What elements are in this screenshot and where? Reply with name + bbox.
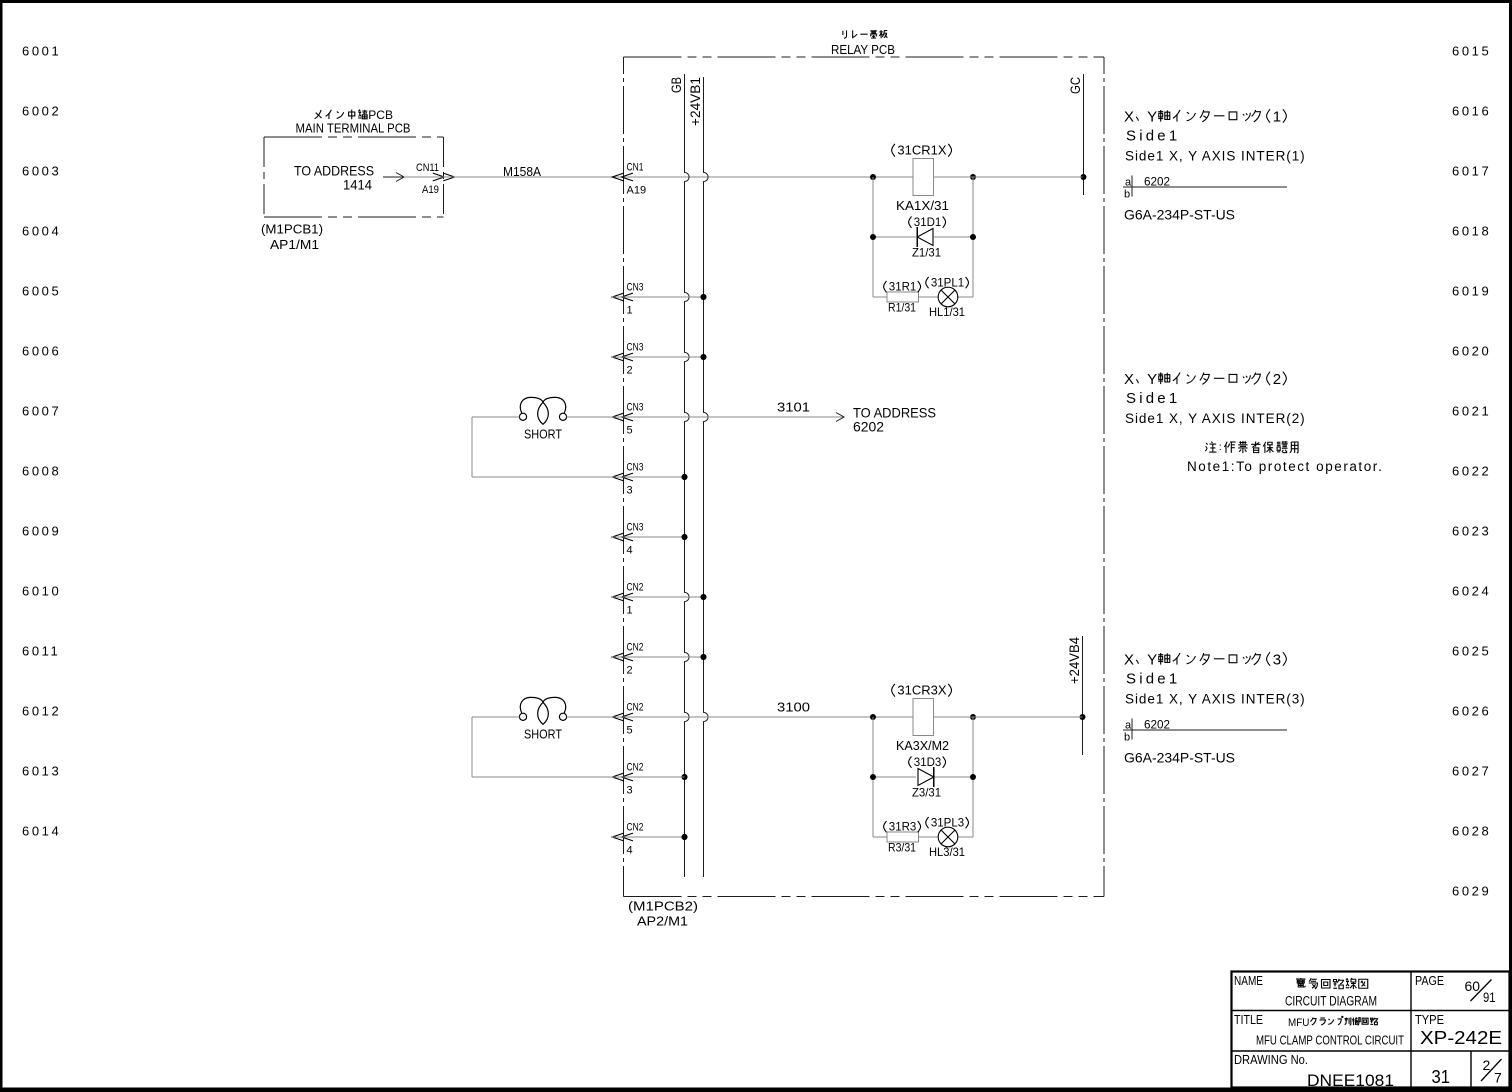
svg-text:KA3X/M2: KA3X/M2 (896, 738, 949, 753)
connector CN2 pin 1 (edge chevrons) (612, 593, 624, 601)
svg-text:PAGE: PAGE (1415, 973, 1444, 988)
svg-text:6012: 6012 (22, 704, 61, 719)
svg-text:31D3: 31D3 (914, 757, 942, 769)
svg-text:CN2: CN2 (627, 642, 644, 654)
svg-text:6011: 6011 (22, 644, 60, 659)
label （31PL3） (926, 817, 929, 828)
svg-text:NAME: NAME (1234, 973, 1263, 988)
wire jumper1 to CN3-3 (472, 476, 612, 478)
svg-text:X: X (1124, 109, 1134, 126)
node diode row right junction (970, 774, 976, 780)
svg-text:6004: 6004 (22, 224, 61, 239)
svg-text:TITLE: TITLE (1234, 1012, 1263, 1027)
svg-text:MFU: MFU (1288, 1017, 1309, 1029)
label （31CR1X） (892, 144, 895, 157)
wire M158A from CN11 to relay coil (404, 176, 913, 178)
svg-text:6014: 6014 (22, 824, 61, 839)
node GC junction at row 6003 (1081, 174, 1087, 180)
wire diode row right (934, 236, 973, 238)
svg-text:A19: A19 (422, 184, 439, 196)
svg-text:6005: 6005 (22, 284, 61, 299)
node diode row left junction (870, 234, 876, 240)
svg-text:31: 31 (1432, 1067, 1451, 1087)
svg-text:G6A-234P-ST-US: G6A-234P-ST-US (1124, 207, 1235, 223)
svg-text:KA1X/31: KA1X/31 (896, 198, 949, 213)
svg-text:CIRCUIT DIAGRAM: CIRCUIT DIAGRAM (1285, 994, 1377, 1009)
wire diode row left (873, 776, 916, 778)
node diode row left junction (870, 774, 876, 780)
svg-text:3: 3 (1273, 652, 1281, 669)
svg-text:6017: 6017 (1452, 164, 1491, 179)
bus line +24VB1 (vertical) with crossover hops (704, 77, 709, 877)
svg-text:HL1/31: HL1/31 (929, 305, 965, 319)
svg-text:CN3: CN3 (627, 402, 644, 414)
svg-text:1: 1 (627, 305, 633, 317)
wire left branch vertical (872, 717, 874, 837)
wire CN2-2 to +24VB1 (612, 656, 704, 658)
svg-text:6003: 6003 (22, 164, 61, 179)
svg-text:Y: Y (1147, 652, 1157, 669)
svg-text:91: 91 (1483, 989, 1496, 1005)
svg-text:X: X (1124, 371, 1134, 388)
svg-text:5: 5 (627, 425, 633, 437)
node left branch junction at (873,177) (870, 174, 876, 180)
label リレー基板 / RELAY PCB (843, 30, 847, 38)
svg-text:6016: 6016 (1452, 104, 1491, 119)
label メイン中継PCB / MAIN TERMINAL PCB (315, 110, 322, 119)
svg-text:60: 60 (1465, 978, 1481, 994)
svg-text:RELAY PCB: RELAY PCB (831, 42, 895, 57)
svg-text:6009: 6009 (22, 524, 61, 539)
wire CN2-3 to GB (684, 776, 686, 778)
svg-text:6020: 6020 (1452, 344, 1491, 359)
wire left branch vertical (872, 177, 874, 297)
label （31PL1） (926, 277, 929, 288)
wire CN2-4 to GB (612, 836, 685, 838)
svg-text:6026: 6026 (1452, 704, 1491, 719)
svg-text:MAIN TERMINAL PCB: MAIN TERMINAL PCB (296, 121, 411, 136)
svg-text:G6A-234P-ST-US: G6A-234P-ST-US (1124, 750, 1235, 766)
wire right branch vertical (972, 177, 974, 297)
svg-text:DNEE1081: DNEE1081 (1307, 1071, 1394, 1090)
svg-text:6007: 6007 (22, 404, 61, 419)
relay coil KA1X/31 box (913, 159, 934, 196)
svg-text:+24VB4: +24VB4 (1066, 637, 1082, 684)
svg-text:3101: 3101 (777, 400, 810, 415)
svg-text:CN3: CN3 (627, 282, 644, 294)
svg-text:31D1: 31D1 (914, 217, 942, 229)
svg-text:(M1PCB1): (M1PCB1) (261, 222, 323, 237)
svg-text:2: 2 (1483, 1057, 1491, 1073)
svg-text:Y: Y (1147, 109, 1157, 126)
connector CN3 pin 1 (edge chevrons) (612, 293, 624, 301)
svg-text:GB: GB (668, 77, 684, 93)
svg-text:31PL3: 31PL3 (931, 818, 964, 830)
label （31R3） (884, 821, 887, 832)
svg-text:5: 5 (627, 725, 633, 737)
svg-text:+24VB1: +24VB1 (687, 77, 703, 126)
node right branch junction at (973,717) (970, 714, 976, 720)
svg-text:M158A: M158A (503, 164, 541, 179)
wire CN3-1 to +24VB1 (612, 296, 704, 298)
jumper plug SHORT (CN2-5 to CN2-3) (519, 697, 566, 724)
connector CN2 pin 4 (edge chevrons) (612, 833, 624, 841)
node right branch junction at (973,177) (970, 174, 976, 180)
svg-text:Z1/31: Z1/31 (912, 246, 941, 260)
bus line GC (vertical) (1083, 74, 1085, 195)
grid reference numbers right column 6015-6029 (1452, 44, 1491, 899)
svg-text:3: 3 (627, 485, 633, 497)
arrow to address 6202 (836, 413, 844, 422)
svg-text:6018: 6018 (1452, 224, 1491, 239)
node +24VB4 junction at row 6012 (1080, 714, 1086, 720)
node left branch junction at (873,717) (870, 714, 876, 720)
bus line +24VB4 (vertical) (1082, 636, 1084, 755)
svg-text:A19: A19 (627, 185, 647, 197)
wire diode row right (934, 776, 973, 778)
svg-text:CN2: CN2 (627, 762, 644, 774)
svg-text:Side1: Side1 (1126, 390, 1180, 407)
wire CN3-2 to +24VB1 (612, 356, 704, 358)
svg-text:CN3: CN3 (627, 462, 644, 474)
svg-text:DRAWING No.: DRAWING No. (1234, 1052, 1308, 1067)
svg-text:1414: 1414 (343, 177, 372, 193)
connector CN3 pin 5 (edge chevrons) (612, 413, 624, 421)
svg-text:XP-242E: XP-242E (1420, 1028, 1502, 1048)
svg-text:6024: 6024 (1452, 584, 1491, 599)
svg-text:b: b (1124, 732, 1130, 744)
svg-text:2: 2 (627, 365, 633, 377)
wire jumper1 left leg (472, 416, 519, 418)
wire right of coil to bus (934, 176, 1083, 178)
svg-text:3100: 3100 (777, 700, 810, 715)
connector CN1 pin A19 (edge chevrons) (612, 173, 624, 181)
svg-text:SHORT: SHORT (524, 427, 562, 442)
svg-text:6025: 6025 (1452, 644, 1491, 659)
svg-text:6202: 6202 (1144, 175, 1170, 189)
svg-text:SHORT: SHORT (524, 727, 562, 742)
svg-text:b: b (1124, 189, 1130, 201)
svg-text:31R3: 31R3 (889, 822, 917, 834)
label （31D3） (909, 757, 912, 768)
svg-text:Side1: Side1 (1126, 671, 1180, 688)
svg-text:6021: 6021 (1452, 404, 1491, 419)
svg-text:6028: 6028 (1452, 824, 1491, 839)
connector CN3 pin 2 (edge chevrons) (612, 353, 624, 361)
svg-text:6010: 6010 (22, 584, 61, 599)
svg-text:3: 3 (627, 785, 633, 797)
svg-text:Side1: Side1 (1126, 128, 1180, 145)
label （31D1） (909, 217, 912, 228)
svg-text:Z3/31: Z3/31 (912, 786, 941, 800)
annotation note 注：作業者保護用 (1205, 442, 1216, 452)
wire CN2-1 to +24VB1 (612, 596, 704, 598)
grid reference numbers left column 6001-6014 (22, 44, 61, 839)
svg-text:4: 4 (627, 545, 633, 557)
svg-text:7: 7 (1494, 1070, 1502, 1086)
svg-text:TYPE: TYPE (1415, 1012, 1444, 1027)
wire diode row left (873, 236, 916, 238)
connector CN3 pin 3 (edge chevrons) (612, 473, 624, 481)
svg-text:GC: GC (1067, 77, 1083, 94)
svg-text:X: X (1124, 652, 1134, 669)
svg-text:2: 2 (1273, 371, 1281, 388)
svg-text:R3/31: R3/31 (888, 841, 916, 855)
svg-text:1: 1 (1273, 109, 1281, 126)
svg-text:6002: 6002 (22, 104, 61, 119)
wire jumper2 to CN2-3 (472, 776, 685, 778)
lamp HL3/31 (938, 827, 958, 847)
svg-text:6015: 6015 (1452, 44, 1491, 59)
bus line GB (vertical) with crossover hops (685, 74, 690, 877)
label （31CR3X） (892, 684, 895, 697)
wire jumper1 right leg to CN3-5 (567, 416, 612, 418)
svg-text:31R1: 31R1 (889, 282, 917, 294)
wire jumper2 right leg to CN2-5 (567, 716, 612, 718)
svg-text:AP2/M1: AP2/M1 (637, 914, 688, 929)
svg-text:Note1:To protect operator.: Note1:To protect operator. (1187, 459, 1383, 474)
diode Z1/31 (917, 229, 933, 246)
wire CN3-4 to GB (612, 536, 685, 538)
svg-text:(M1PCB2): (M1PCB2) (628, 899, 698, 914)
svg-text:6001: 6001 (22, 44, 61, 59)
connector CN2 pin 5 (edge chevrons) (612, 713, 624, 721)
svg-text:MFU CLAMP CONTROL CIRCUIT: MFU CLAMP CONTROL CIRCUIT (1256, 1033, 1404, 1048)
svg-text:R1/31: R1/31 (888, 301, 916, 315)
svg-text:CN1: CN1 (627, 162, 644, 174)
resistor R3/31 (887, 832, 919, 842)
svg-text:Side1 X, Y AXIS INTER(2): Side1 X, Y AXIS INTER(2) (1125, 411, 1306, 426)
connector CN2 pin 2 (edge chevrons) (612, 653, 624, 661)
svg-text:HL3/31: HL3/31 (929, 845, 965, 859)
svg-text:CN3: CN3 (627, 522, 644, 534)
svg-text:6023: 6023 (1452, 524, 1491, 539)
wire 3100 from CN2-5 to relay coil KA3X (612, 716, 913, 718)
svg-text:6019: 6019 (1452, 284, 1491, 299)
svg-text:6022: 6022 (1452, 464, 1491, 479)
connector CN3 pin 4 (edge chevrons) (612, 533, 624, 541)
svg-text:CN2: CN2 (627, 582, 644, 594)
svg-text:Side1 X, Y AXIS INTER(3): Side1 X, Y AXIS INTER(3) (1125, 692, 1306, 707)
wire 3101 from CN3-5 to address 6202 (612, 416, 843, 418)
svg-text:6013: 6013 (22, 764, 61, 779)
svg-text:4: 4 (627, 845, 633, 857)
svg-text:CN3: CN3 (627, 342, 644, 354)
main terminal pcb AP1/M1 dashed box (264, 136, 444, 138)
wire resistor row (873, 836, 887, 838)
svg-text:2: 2 (627, 665, 633, 677)
wire right branch vertical (972, 717, 974, 837)
node diode row right junction (970, 234, 976, 240)
svg-text:CN2: CN2 (627, 702, 644, 714)
signal arrow to address 1414 (383, 176, 403, 178)
svg-text:6202: 6202 (853, 419, 884, 435)
diode Z3/31 (918, 769, 934, 786)
svg-text:CN11: CN11 (416, 162, 439, 174)
svg-text:Y: Y (1147, 371, 1157, 388)
svg-text:CN2: CN2 (627, 822, 644, 834)
svg-text:AP1/M1: AP1/M1 (270, 237, 319, 252)
svg-text:6006: 6006 (22, 344, 61, 359)
wire jumper2 left leg (472, 716, 519, 718)
wire resistor row (873, 296, 887, 298)
relay pcb AP2/M1 dashed box (624, 56, 1105, 58)
svg-text:6029: 6029 (1452, 884, 1491, 899)
relay coil KA3X/M2 box (913, 699, 934, 736)
svg-text:31PL1: 31PL1 (931, 278, 964, 290)
wire right of coil to bus (934, 716, 1083, 718)
svg-text:1: 1 (627, 605, 633, 617)
label （31R1） (884, 281, 887, 292)
lamp HL1/31 (938, 287, 958, 307)
svg-text:31CR1X: 31CR1X (897, 143, 946, 158)
svg-text:Side1 X, Y AXIS INTER(1): Side1 X, Y AXIS INTER(1) (1125, 149, 1306, 164)
resistor R1/31 (887, 292, 919, 302)
svg-text:6027: 6027 (1452, 764, 1491, 779)
svg-text:6202: 6202 (1144, 718, 1170, 732)
wire CN3-3 to GB (612, 476, 685, 478)
title block frame (1232, 972, 1510, 1088)
svg-text:6008: 6008 (22, 464, 61, 479)
jumper plug SHORT (CN3-5 to CN3-3) (519, 397, 566, 424)
connector CN2 pin 3 (edge chevrons) (612, 773, 624, 781)
svg-text:31CR3X: 31CR3X (897, 683, 946, 698)
